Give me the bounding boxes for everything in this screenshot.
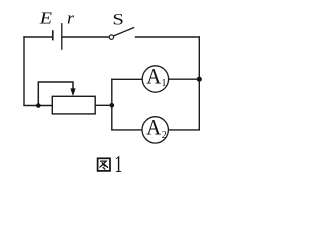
- ammeter A1 circle: [142, 66, 168, 92]
- wire rheostat to middle junction: [95, 104, 112, 106]
- svg-text:2: 2: [162, 130, 167, 141]
- svg-text:A: A: [146, 63, 161, 88]
- svg-text:1: 1: [161, 78, 166, 89]
- svg-text:1: 1: [114, 151, 122, 178]
- switch S terminal circle: [109, 35, 113, 39]
- caption 图 (figure) outer box: [98, 158, 110, 171]
- wire top-left horizontal (battery negative lead): [23, 36, 53, 38]
- rheostat wiper arrowhead: [70, 88, 75, 96]
- label A2: [146, 114, 167, 141]
- wire to ammeter A2: [111, 129, 142, 131]
- wire bottom-left horizontal to rheostat: [23, 105, 52, 107]
- wire switch to top-right corner: [135, 36, 200, 38]
- wire battery to switch: [62, 36, 109, 38]
- svg-text:r: r: [67, 8, 75, 27]
- switch S blade (open): [114, 27, 135, 36]
- wire left vertical: [23, 36, 25, 105]
- battery cell: short plate (negative): [52, 30, 54, 40]
- wire ammeter A1 to right junction: [169, 78, 200, 80]
- battery cell: long plate (positive): [61, 23, 63, 50]
- rheostat R body (resistor box): [52, 96, 95, 114]
- junction dot left (wiper tap node): [36, 103, 41, 108]
- ammeter A2 circle: [142, 117, 168, 143]
- junction dot right (A1 branch meets right bus): [197, 77, 202, 82]
- wire to ammeter A1: [111, 78, 142, 80]
- junction dot middle (rheostat output node): [110, 103, 115, 108]
- rheostat wiper wire: [38, 82, 73, 106]
- svg-text:A: A: [146, 114, 161, 139]
- label A1: [146, 63, 166, 89]
- svg-text:S: S: [112, 12, 124, 29]
- wire ammeter A2 to bottom-right corner: [168, 129, 200, 131]
- wire right vertical: [198, 36, 200, 130]
- wire middle vertical (splitter between A1 and A2): [111, 79, 113, 130]
- svg-text:E: E: [39, 8, 53, 27]
- caption 图 inner strokes (冬): [100, 161, 108, 169]
